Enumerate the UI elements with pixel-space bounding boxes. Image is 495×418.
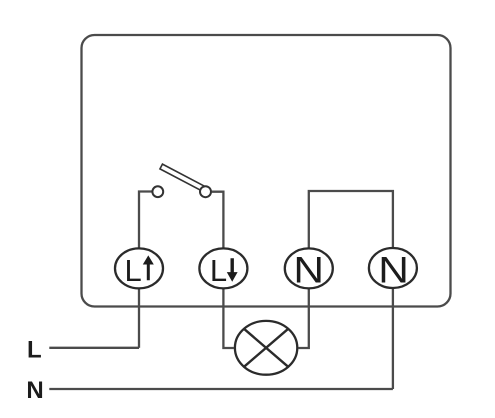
wire: lamp right to terminal N3 (298, 289, 309, 348)
svg-text:L: L (125, 253, 142, 288)
wire: N line from label to terminal N4 (49, 388, 393, 390)
terminal N4 circle (369, 248, 417, 288)
device outline (timer/switch enclosure) (82, 35, 451, 307)
wire: switch output to terminal L-down (212, 192, 224, 248)
wire: terminal L-up down to L line (138, 289, 140, 348)
wire: L line from label to terminal L-up (49, 347, 139, 349)
lamp E1 circle (235, 321, 297, 375)
terminal N3 circle (285, 248, 333, 288)
wire: terminal L-down to lamp left (223, 289, 234, 348)
svg-text:L: L (210, 253, 227, 288)
arrow up in terminal L-up (143, 255, 154, 280)
wire: terminal N4 down to N line (392, 288, 394, 389)
wire: L-in stub up from terminal L-up to switch (139, 192, 152, 249)
switch lever S1 (160, 164, 205, 191)
terminal L-down circle (199, 248, 247, 288)
arrow down in terminal L-down (227, 258, 238, 282)
svg-text:L: L (27, 337, 42, 364)
lamp E1 cross (244, 329, 288, 367)
svg-text:N: N (293, 250, 324, 291)
switch contact (right) (200, 186, 211, 197)
switch contact (left) (152, 186, 163, 197)
terminal L-up circle (115, 248, 163, 288)
svg-text:N: N (26, 377, 43, 404)
wire: bridge between N terminals (309, 191, 393, 248)
svg-text:N: N (378, 250, 409, 291)
